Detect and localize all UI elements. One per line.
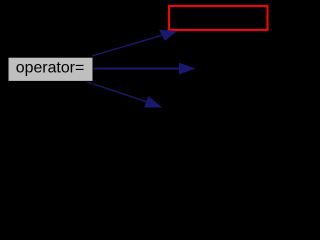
arrowhead middle bbox=[180, 63, 195, 74]
arrowhead bottom bbox=[145, 97, 161, 107]
node operator= (current node, grey filled) bbox=[8, 57, 93, 81]
edge wire middle bbox=[91, 68, 180, 70]
svg-text:operator=: operator= bbox=[16, 60, 84, 77]
edge wire to red node (upper) bbox=[92, 35, 162, 56]
node truncated (red outlined box) bbox=[169, 6, 268, 30]
arrowhead to red node bbox=[160, 30, 176, 40]
edge wire bottom bbox=[86, 82, 147, 102]
